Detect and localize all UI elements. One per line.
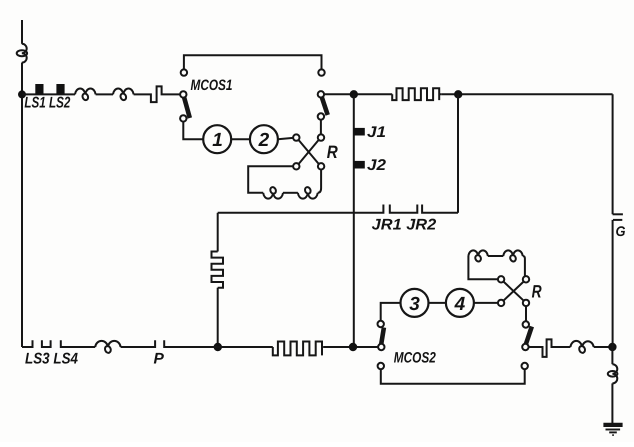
junction: feed / J-line bbox=[350, 90, 358, 98]
wire: right vertical (capacitor to bus) bbox=[612, 220, 614, 347]
wire: J-line vertical bbox=[353, 94, 355, 347]
svg-text:LS1 LS2: LS1 LS2 bbox=[24, 95, 70, 112]
junction: left bus / top feed bbox=[18, 90, 26, 98]
switch MCOS1 left: blade bbox=[184, 97, 190, 118]
switch MCOS1 left: lower contact bbox=[180, 115, 186, 121]
wire: top feed right of MCOS1 bbox=[324, 93, 392, 95]
wire to ground bbox=[611, 383, 613, 423]
cross switch R bottom: terminal TR bbox=[523, 276, 529, 282]
svg-text:MCOS1: MCOS1 bbox=[191, 77, 233, 94]
cross switch R top: terminal BL bbox=[293, 163, 299, 169]
wire bbox=[323, 346, 378, 348]
resistor meander on top feed bbox=[392, 88, 441, 100]
bottom bus with LS3 LS4 P breaks bbox=[22, 340, 273, 347]
wire bbox=[283, 192, 298, 194]
inductor coil on bottom bus bbox=[95, 341, 120, 347]
meter 1 bbox=[203, 125, 231, 153]
svg-text:LS3 LS4: LS3 LS4 bbox=[25, 351, 78, 368]
wire: BR down to MCOS2 right upper contact bbox=[525, 306, 527, 321]
cross switch R top: terminal BR bbox=[318, 163, 324, 169]
switch MCOS1 right: lower contact bbox=[318, 113, 324, 119]
relay coil loop of cross switch R bottom bbox=[468, 256, 498, 279]
svg-text:G: G bbox=[616, 223, 626, 239]
svg-text:R: R bbox=[327, 142, 338, 162]
wire: lower link loop bbox=[381, 369, 525, 384]
svg-text:1: 1 bbox=[212, 130, 223, 151]
switch MCOS2 left: pivot contact on bus bbox=[378, 344, 384, 350]
svg-text:MCOS2: MCOS2 bbox=[394, 350, 437, 367]
svg-text:JR1 JR2: JR1 JR2 bbox=[372, 217, 437, 234]
inductor kink on right drop bbox=[612, 364, 617, 383]
switch MCOS2 left: lower contact bbox=[378, 363, 384, 369]
cross switch R top: crossing links bbox=[299, 140, 319, 164]
cross switch R bottom: terminal BR bbox=[523, 300, 529, 306]
contact LS2 (black block) bbox=[56, 84, 64, 94]
junction: bus / vertical resistor line bbox=[214, 343, 222, 351]
capacitor G: bottom plate bbox=[613, 219, 622, 221]
wire: MCOS1 linking bar bbox=[184, 55, 322, 69]
inductor group 2 bbox=[503, 250, 522, 256]
inductor (inverted) group 2 bbox=[298, 193, 318, 199]
inductor kink on left bus bbox=[22, 44, 27, 63]
switch MCOS1 right: blade bbox=[322, 97, 328, 115]
wire: lower contact down to cross TR bbox=[320, 120, 322, 135]
svg-text:P: P bbox=[154, 351, 165, 368]
wire bbox=[96, 93, 113, 95]
wire bbox=[488, 255, 504, 257]
inductor group 1 bbox=[468, 250, 487, 256]
wire bbox=[429, 302, 446, 304]
wire: lower contact to meter 1 bbox=[183, 122, 203, 140]
switch MCOS2 right: lower contact bbox=[522, 363, 528, 369]
resistor meander on bottom bus bbox=[273, 342, 324, 356]
junction: feed / middle return bbox=[454, 90, 462, 98]
wire: middle line corner down to resistor bbox=[217, 213, 219, 252]
switch MCOS1 left: pivot contact bbox=[180, 91, 186, 97]
junction: right vertical / bus bbox=[608, 343, 616, 351]
switch MCOS2 right: blade bbox=[526, 327, 532, 344]
inductor (inverted) group 1 bbox=[263, 193, 283, 199]
meter 3 bbox=[401, 289, 429, 317]
switch MCOS2 left: blade bbox=[381, 328, 384, 345]
wire bbox=[441, 93, 612, 95]
svg-text:R: R bbox=[532, 282, 542, 302]
switch MCOS1 right: pivot contact bbox=[318, 91, 324, 97]
wire: upper contact to meter 3 bbox=[381, 303, 401, 321]
switch MCOS1 right: upper contact bbox=[318, 69, 324, 75]
middle wire with JR breaks bbox=[218, 205, 458, 213]
cross switch R top: terminal TR bbox=[318, 134, 324, 140]
svg-text:J1: J1 bbox=[367, 124, 386, 141]
ground bbox=[603, 425, 622, 435]
wire bbox=[231, 138, 250, 140]
wire: left vertical bus (below kink) bbox=[21, 63, 23, 347]
contact J1 (black block) bbox=[354, 128, 365, 136]
contact J2 (black block) bbox=[354, 161, 365, 169]
cross switch R bottom: crossing links bbox=[503, 282, 523, 301]
wire up to BR terminal bbox=[318, 170, 321, 193]
cross switch R top: terminal TL bbox=[293, 134, 299, 140]
wire with breaker step symbol bbox=[134, 86, 181, 102]
meter 4 bbox=[446, 289, 474, 317]
svg-text:4: 4 bbox=[454, 294, 466, 315]
wire: right vertical (top to capacitor) bbox=[612, 94, 614, 214]
wire: below junction bbox=[611, 347, 613, 364]
cross switch R bottom: terminal BL bbox=[498, 300, 504, 306]
switch MCOS1 left: upper contact bbox=[181, 69, 187, 75]
svg-text:3: 3 bbox=[409, 294, 420, 315]
switch MCOS2 right: pivot contact bbox=[522, 344, 528, 350]
wire: top feed line left segment bbox=[22, 93, 75, 95]
svg-text:2: 2 bbox=[258, 130, 270, 151]
resistor vertical meander bbox=[212, 252, 224, 288]
contact LS1 (black block) bbox=[35, 84, 43, 94]
wire bbox=[594, 346, 613, 348]
wire bbox=[278, 138, 293, 139]
inductor coil bottom right bbox=[570, 341, 593, 347]
relay coil loop of cross switch R top bbox=[248, 166, 293, 193]
wire: vertical return x458 bbox=[457, 94, 459, 213]
wire down to TR bbox=[523, 256, 525, 276]
inductor coil A on top feed bbox=[75, 89, 96, 95]
junction: bus / J-line bottom bbox=[349, 343, 357, 351]
wire: left vertical bus (top) bbox=[21, 20, 23, 44]
meter 2 bbox=[250, 125, 278, 153]
capacitor G: top plate bbox=[613, 213, 623, 215]
switch MCOS2 left: upper contact bbox=[378, 321, 384, 327]
switch MCOS2 right: upper contact bbox=[523, 321, 529, 327]
wire bbox=[474, 302, 498, 304]
wire down to bottom bus bbox=[217, 288, 219, 347]
wire with breaker step symbol (bottom right) bbox=[529, 339, 571, 357]
svg-text:J2: J2 bbox=[367, 157, 386, 174]
inductor coil B on top feed bbox=[113, 89, 134, 95]
cross switch R bottom: terminal TL bbox=[498, 276, 504, 282]
